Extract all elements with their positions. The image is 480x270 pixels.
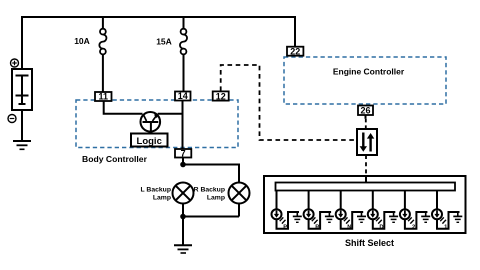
svg-text:Logic: Logic xyxy=(137,136,162,147)
svg-text:10A: 10A xyxy=(74,36,90,46)
svg-text:15A: 15A xyxy=(156,37,172,47)
svg-text:11: 11 xyxy=(98,92,108,102)
svg-text:Engine Controller: Engine Controller xyxy=(333,66,405,76)
svg-text:26: 26 xyxy=(360,106,370,116)
svg-text:Body Controller: Body Controller xyxy=(82,154,148,164)
svg-text:14: 14 xyxy=(178,91,188,101)
svg-text:7: 7 xyxy=(181,148,186,158)
svg-text:R Backup: R Backup xyxy=(194,187,225,194)
svg-text:Lamp: Lamp xyxy=(153,194,171,201)
svg-text:L Backup: L Backup xyxy=(141,187,171,194)
svg-text:Lamp: Lamp xyxy=(207,194,225,201)
svg-text:N: N xyxy=(347,225,351,231)
svg-text:22: 22 xyxy=(290,47,300,57)
svg-text:D: D xyxy=(379,225,383,231)
svg-text:12: 12 xyxy=(216,91,226,101)
svg-text:P: P xyxy=(283,225,287,231)
svg-text:Shift Select: Shift Select xyxy=(345,238,394,248)
svg-text:2: 2 xyxy=(412,225,415,231)
